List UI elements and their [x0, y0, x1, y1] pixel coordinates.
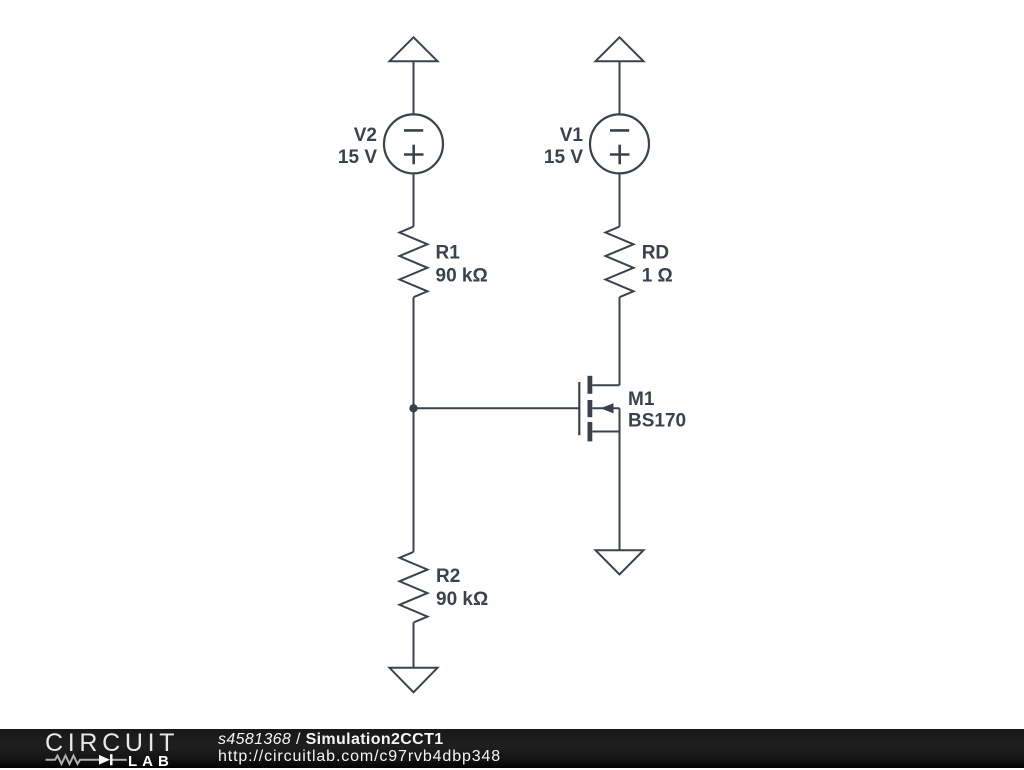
svg-text:RD: RD — [642, 242, 669, 263]
footer bar — [0, 729, 1024, 768]
label M1 BS170 — [628, 389, 686, 432]
svg-text:R2: R2 — [436, 566, 460, 587]
wire V2 to R1 — [413, 173, 415, 226]
M1 channel bar source side — [588, 422, 593, 442]
wire node A to M1 gate — [414, 407, 580, 409]
label RD 1 Ohm — [642, 242, 673, 286]
svg-text:15 V: 15 V — [544, 147, 583, 168]
M1 drain connection — [592, 384, 619, 386]
M1 channel bar middle — [588, 400, 593, 417]
resistor R2 — [400, 552, 428, 623]
V2 plus sign — [404, 145, 424, 165]
M1 body arrow head — [601, 403, 614, 413]
schematic url — [218, 748, 501, 766]
label R2 90 kOhm — [436, 566, 488, 610]
transistor M1 (NMOS BS170) — [579, 376, 619, 442]
power flag (top of V2 branch) — [390, 37, 438, 61]
M1 body line with arrow — [592, 407, 619, 409]
M1 body to source wire — [619, 408, 621, 431]
power flag (top of V1 branch) — [596, 37, 644, 61]
svg-text:V1: V1 — [560, 125, 584, 146]
ground (right) — [596, 550, 644, 574]
wire power flag to V1 — [619, 61, 621, 114]
wire R2 to ground — [413, 623, 415, 668]
label V2 15 V — [338, 125, 377, 168]
svg-text:V2: V2 — [354, 125, 377, 146]
svg-text:90 kΩ: 90 kΩ — [436, 589, 488, 610]
M1 gate bar — [578, 382, 580, 435]
resistor R1 — [400, 227, 428, 298]
svg-text:BS170: BS170 — [628, 411, 686, 432]
V1 plus sign — [610, 145, 630, 165]
label V1 15 V — [544, 125, 584, 168]
M1 source connection — [592, 431, 619, 433]
V2 minus sign — [404, 129, 423, 132]
M1 channel bar drain side — [588, 376, 593, 394]
wire node A to R2 — [413, 408, 415, 552]
CircuitLab logo squiggle (resistor and diode) — [44, 751, 134, 768]
voltage source V1 body — [590, 114, 649, 173]
svg-text:M1: M1 — [628, 389, 655, 410]
node A junction dot — [409, 404, 417, 412]
label R1 90 kOhm — [436, 242, 488, 286]
svg-text:R1: R1 — [436, 242, 461, 263]
wire R1 to node A — [413, 297, 415, 408]
V1 minus sign — [610, 129, 629, 132]
resistor RD — [606, 227, 634, 298]
voltage source V2 body — [384, 114, 443, 173]
schematic id and title — [218, 731, 443, 749]
svg-text:1 Ω: 1 Ω — [642, 265, 673, 286]
wire RD to M1 drain — [619, 297, 621, 385]
CircuitLab logo wordmark LAB — [128, 753, 174, 770]
wire power flag to V2 — [413, 61, 415, 114]
wire V1 to RD — [619, 173, 621, 226]
svg-text:15 V: 15 V — [338, 147, 377, 168]
svg-text:90 kΩ: 90 kΩ — [436, 265, 488, 286]
ground (left) — [390, 668, 438, 693]
wire M1 source to ground — [619, 432, 621, 551]
CircuitLab logo wordmark CIRCUIT — [45, 729, 179, 758]
